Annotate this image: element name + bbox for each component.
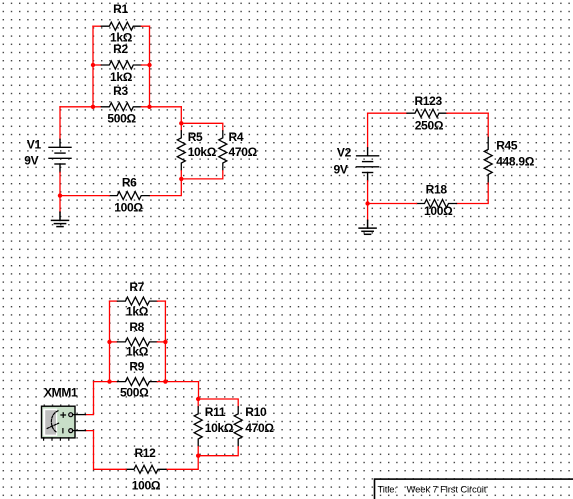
wire R6 row left (60, 195, 109, 197)
svg-text:XMM1: XMM1 (44, 385, 78, 399)
ground (V1) (52, 212, 69, 226)
node R5 top junction (179, 121, 183, 125)
resistor R12 (126, 465, 166, 473)
node R11 bottom junction (196, 454, 200, 458)
resistor R2 (101, 61, 141, 69)
wire R4 top branch (181, 123, 223, 131)
svg-text:R7: R7 (129, 280, 144, 294)
wire R45 bottom (457, 183, 489, 204)
wire R12 right riser (166, 456, 198, 470)
wire right vertical bus (149, 26, 151, 107)
resistor R7 (117, 297, 157, 305)
wire R9 row left (94, 381, 118, 383)
wire right vertical bus (bottom block) (164, 301, 166, 382)
resistor R11 (194, 407, 202, 446)
svg-text:R123: R123 (414, 94, 442, 108)
node battery bottom junction (58, 193, 62, 197)
wire R2 row left (93, 64, 101, 66)
node R8 left junction (107, 340, 111, 344)
wire R11 bottom stub (197, 447, 199, 456)
wire R10 top branch (198, 399, 238, 407)
resistor R9 (117, 378, 157, 386)
wire R7 row left (110, 300, 118, 302)
svg-text:R4: R4 (229, 130, 244, 144)
wire R5 top stub (180, 123, 182, 131)
svg-text:500Ω: 500Ω (120, 386, 149, 400)
svg-text:448.9Ω: 448.9Ω (496, 154, 535, 168)
wire down from R5 bottom to R6 row (149, 179, 181, 196)
svg-text:470Ω: 470Ω (245, 421, 274, 435)
wire down to R5 top node (180, 107, 182, 124)
svg-text:1kΩ: 1kΩ (126, 345, 149, 359)
wire left vertical bus (92, 26, 94, 107)
node R2 right junction (147, 63, 151, 67)
svg-text:10kΩ: 10kΩ (188, 145, 217, 159)
wire R3 row left (60, 106, 101, 108)
svg-text:470Ω: 470Ω (229, 145, 258, 159)
resistor R123 (407, 109, 447, 117)
svg-text:10kΩ: 10kΩ (205, 421, 234, 435)
node V2 bottom junction (365, 201, 369, 205)
ground (V2) (359, 220, 376, 234)
resistor R6 (109, 192, 149, 200)
resistor R8 (117, 338, 157, 346)
svg-text:1kΩ: 1kΩ (126, 304, 149, 318)
svg-text:Week 7 First Circuit: Week 7 First Circuit (407, 484, 487, 495)
svg-text:R9: R9 (129, 360, 144, 374)
wire R12 row left (86, 431, 127, 470)
node R8 right junction (163, 340, 167, 344)
wire R4 bottom branch (181, 171, 223, 179)
wire R1 row left (93, 25, 101, 27)
svg-text:R12: R12 (134, 446, 156, 460)
svg-text:R10: R10 (245, 405, 267, 419)
resistor R45 (484, 137, 492, 184)
svg-text:R3: R3 (113, 84, 128, 98)
svg-text:R1: R1 (113, 2, 128, 16)
wire left vertical bus (bottom block) (109, 301, 111, 382)
resistor R4 (219, 131, 227, 170)
wire R123 row left (368, 112, 407, 114)
svg-text:R2: R2 (113, 42, 128, 56)
wire R11 top stub (197, 399, 199, 407)
title block frame (375, 479, 573, 499)
svg-text:V2: V2 (337, 145, 352, 159)
wire R3 row right (141, 106, 181, 108)
wire R7 row right (157, 300, 165, 302)
svg-text:100Ω: 100Ω (424, 204, 453, 218)
svg-text:R45: R45 (496, 139, 518, 153)
node R3 left junction (91, 105, 95, 109)
wire R45 top (487, 113, 489, 137)
svg-text:9V: 9V (24, 154, 38, 168)
battery V1 (49, 139, 71, 172)
resistor R18 (417, 200, 457, 208)
wire V2 bottom (367, 181, 369, 221)
svg-text:500Ω: 500Ω (107, 111, 136, 125)
svg-text:100Ω: 100Ω (114, 200, 143, 214)
resistor R3 (101, 103, 141, 111)
svg-text:250Ω: 250Ω (415, 118, 444, 132)
wire battery bottom (59, 172, 61, 212)
wire R10 bottom branch (198, 447, 238, 456)
wire R9 row right (157, 381, 198, 383)
svg-text:Title:: Title: (378, 484, 397, 495)
node R11 top junction (196, 397, 200, 401)
wire R1 row right (141, 25, 149, 27)
wire R123 row right (447, 112, 488, 114)
wire R8 row right (157, 341, 165, 343)
svg-text:100Ω: 100Ω (132, 479, 161, 493)
node R2 left junction (91, 63, 95, 67)
wire R8 row left (110, 341, 118, 343)
svg-text:R8: R8 (129, 320, 144, 334)
svg-text:R5: R5 (188, 130, 203, 144)
resistor R10 (234, 407, 242, 446)
multimeter XMM1 (42, 406, 86, 440)
svg-text:R18: R18 (426, 183, 448, 197)
wire R5 bottom stub (180, 171, 182, 179)
svg-text:1kΩ: 1kΩ (110, 70, 133, 84)
wire V2 top (367, 113, 369, 148)
node R9 right junction (163, 379, 167, 383)
resistor R5 (177, 131, 185, 170)
node R3 right junction (147, 105, 151, 109)
svg-text:R6: R6 (122, 176, 137, 190)
battery V2 (357, 148, 379, 181)
wire XMM1 plus lead drop (86, 382, 94, 415)
wire R9 right drop to R11 top (198, 382, 200, 399)
wire battery top (59, 107, 61, 140)
svg-text:R11: R11 (205, 405, 226, 419)
svg-text:V1: V1 (27, 138, 42, 152)
svg-text:9V: 9V (333, 163, 347, 177)
wire R2 row right (141, 64, 149, 66)
node R5 bottom junction (179, 177, 183, 181)
resistor R1 (101, 22, 141, 30)
node R9 left junction (107, 379, 111, 383)
wire R18 row left (368, 203, 417, 205)
